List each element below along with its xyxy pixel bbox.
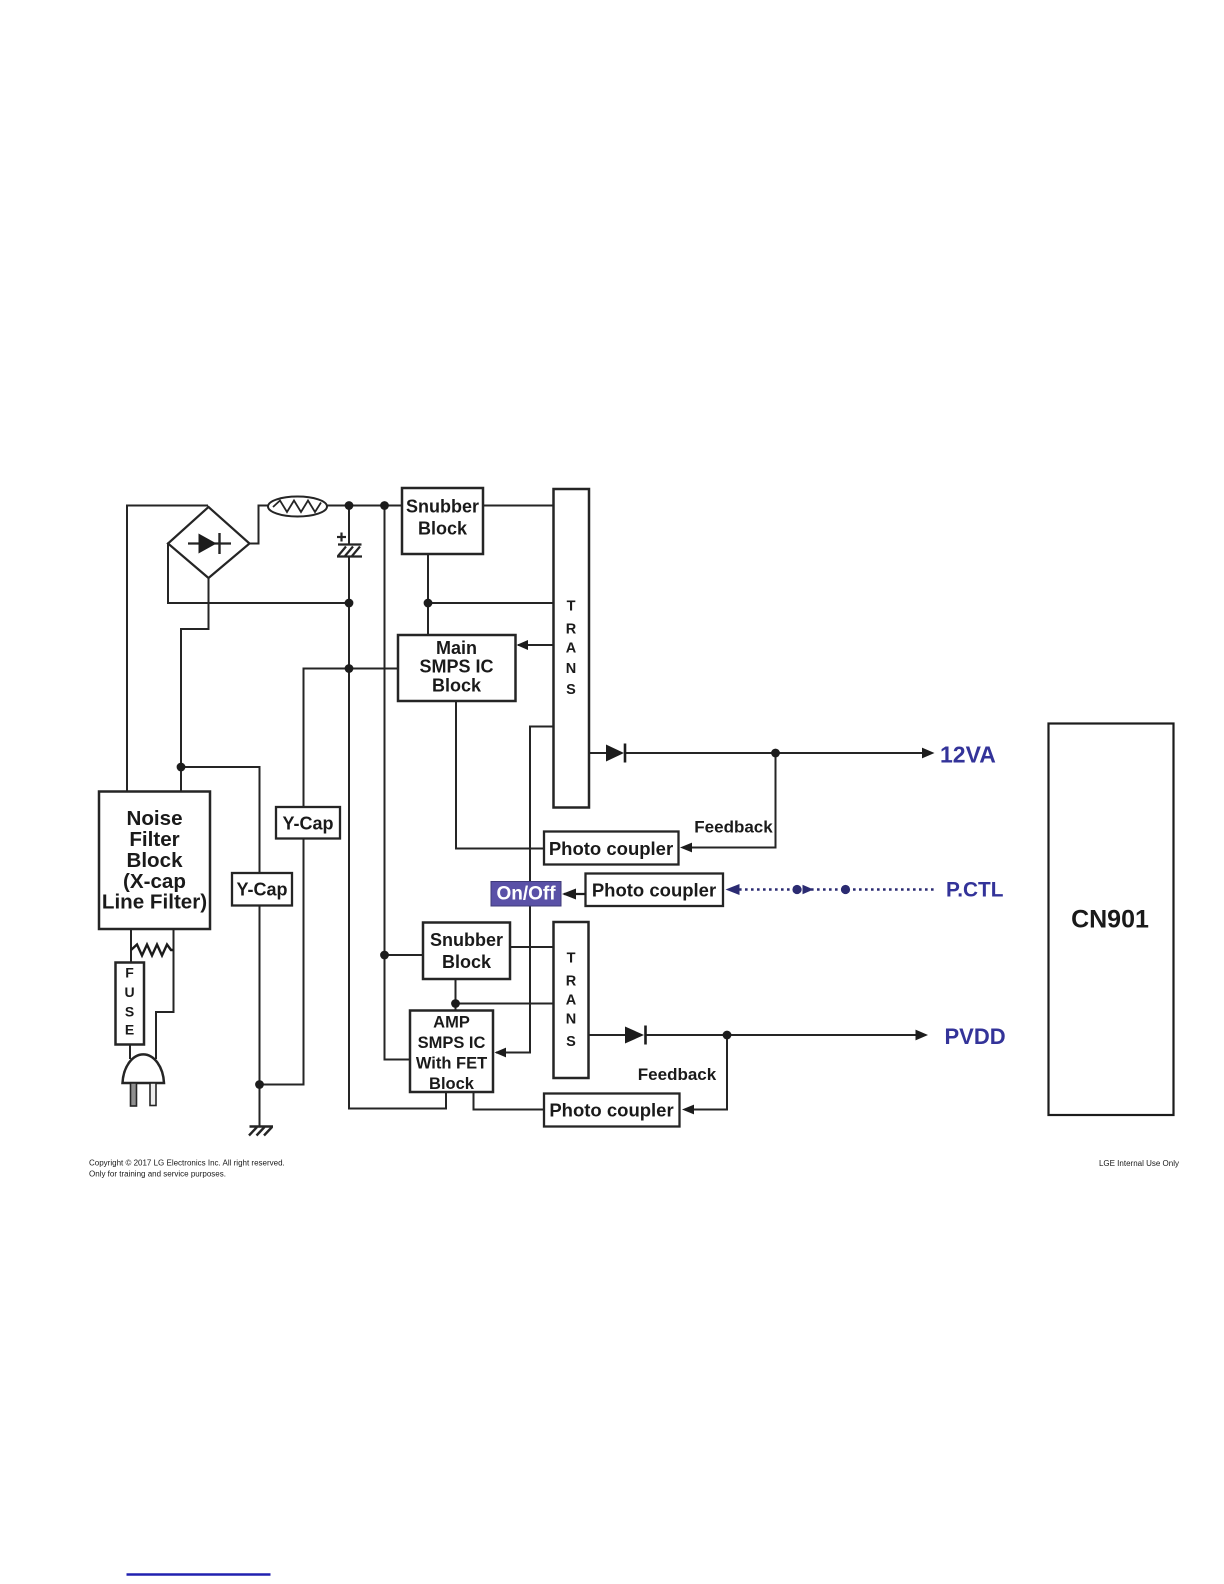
- wire top horizontal from left loop to bridge top: [127, 505, 207, 507]
- ground (chassis): [249, 1127, 273, 1136]
- node snubber2 bottom: [451, 999, 460, 1008]
- arrowhead 12VA: [922, 748, 935, 759]
- wire Snubber2 bottom to AMP top with node to TRANS2: [455, 979, 457, 1011]
- svg-text:U: U: [124, 984, 134, 1000]
- svg-text:A: A: [566, 992, 577, 1008]
- wire bridge right vertex to inductor: [250, 506, 269, 544]
- svg-text:Block: Block: [442, 952, 492, 972]
- arrowhead into Photo coupler 1: [680, 843, 692, 853]
- Noise Filter Block: [99, 792, 210, 930]
- svg-text:Snubber: Snubber: [430, 930, 503, 950]
- wire Noise Filter right leg down jog to plug: [156, 929, 174, 1058]
- wire long vertical to AMP left: [385, 506, 411, 1060]
- plug: [123, 1054, 165, 1106]
- Photo coupler 1: [544, 832, 679, 865]
- node 12VA feedback: [771, 749, 780, 758]
- wire TRANS1 to Main SMPS arrow: [519, 644, 554, 646]
- wire AMP bottom right leg to Photo coupler 3: [474, 1092, 545, 1110]
- svg-text:R: R: [566, 621, 577, 637]
- svg-text:Noise: Noise: [126, 807, 182, 830]
- svg-text:Block: Block: [418, 519, 468, 539]
- On/Off label: [491, 882, 561, 907]
- svg-text:12VA: 12VA: [940, 742, 996, 768]
- svg-text:Block: Block: [126, 849, 183, 872]
- svg-text:SMPS IC: SMPS IC: [419, 657, 493, 677]
- FUSE: [116, 963, 145, 1045]
- Y-Cap upper: [276, 807, 340, 839]
- wire bridge bottom vertex down, jog left, to Noise Filter top: [181, 578, 209, 792]
- diode D2 (PVDD): [606, 1026, 646, 1045]
- svg-text:Line Filter): Line Filter): [102, 891, 207, 914]
- svg-text:With FET: With FET: [416, 1055, 487, 1073]
- Photo coupler 3: [544, 1094, 680, 1127]
- AMP SMPS IC With FET Block: [410, 1011, 493, 1094]
- wire feedback 1 from 12VA node down to Photo coupler 1: [692, 753, 776, 848]
- diode D1 (12VA): [606, 744, 625, 763]
- Y-Cap lower: [232, 873, 292, 906]
- node noise filter top: [177, 763, 186, 772]
- svg-text:Photo coupler: Photo coupler: [549, 838, 673, 859]
- transformer TRANS1: [554, 489, 590, 808]
- node snubber2 left: [380, 951, 389, 960]
- resistor (zigzag between noise filter legs): [131, 945, 174, 956]
- svg-text:Photo coupler: Photo coupler: [549, 1100, 673, 1121]
- node main left wire: [345, 664, 354, 673]
- svg-text:Only for training and service: Only for training and service purposes.: [89, 1170, 226, 1179]
- svg-text:Photo coupler: Photo coupler: [592, 880, 716, 901]
- svg-text:S: S: [566, 1034, 576, 1050]
- node cap bottom: [345, 599, 354, 608]
- svg-text:AMP: AMP: [433, 1014, 470, 1032]
- svg-text:E: E: [125, 1022, 134, 1038]
- svg-text:Feedback: Feedback: [694, 818, 773, 837]
- Snubber Block 2: [423, 923, 510, 980]
- svg-text:P.CTL: P.CTL: [946, 879, 1004, 902]
- transformer TRANS2: [554, 922, 589, 1078]
- wire node to Y-Cap lower: [181, 767, 260, 873]
- arrowhead into Photo coupler 3: [682, 1105, 694, 1115]
- node at snubber input: [380, 501, 389, 510]
- svg-text:A: A: [566, 641, 577, 657]
- P.CTL dotted control line: [726, 884, 938, 895]
- arrowhead into Main SMPS: [517, 640, 529, 650]
- Photo coupler 2: [586, 874, 724, 907]
- wire Snubber1 bottom to Main top with node to TRANS: [427, 554, 429, 635]
- svg-text:N: N: [566, 1012, 576, 1028]
- node snubber1 bottom / trans wire: [424, 599, 433, 608]
- wire PVDD output line: [589, 1034, 607, 1036]
- svg-text:LGE Internal Use Only: LGE Internal Use Only: [1099, 1159, 1179, 1168]
- svg-text:Main: Main: [436, 638, 477, 658]
- wire inductor to Snubber Block 1: [327, 505, 402, 507]
- svg-text:CN901: CN901: [1071, 906, 1149, 934]
- svg-text:T: T: [567, 599, 576, 615]
- wire left vertical down to Noise Filter: [126, 506, 128, 792]
- wire bridge left vertex down and across to cap bottom node: [168, 544, 349, 604]
- svg-text:Y-Cap: Y-Cap: [236, 880, 287, 900]
- wire cap branch vertical: [348, 506, 350, 544]
- node ground wire: [255, 1080, 264, 1089]
- svg-text:Y-Cap: Y-Cap: [282, 814, 333, 834]
- connector CN901: [1049, 724, 1174, 1116]
- footer blue line: [127, 1573, 271, 1576]
- svg-text:On/Off: On/Off: [496, 884, 556, 905]
- wire Y-Cap lower to ground: [259, 906, 261, 1127]
- node at inductor/cap: [345, 501, 354, 510]
- arrowhead Photo coupler 2 to On/Off: [562, 889, 586, 900]
- wire long vertical primary return: [349, 603, 446, 1109]
- inductor L (ellipse with zigzag): [268, 497, 327, 517]
- svg-text:S: S: [125, 1004, 134, 1020]
- junction dots: [177, 501, 780, 1089]
- wire feedback 2 from PVDD node down to Photo coupler 3: [694, 1035, 727, 1110]
- bridge rectifier: [168, 507, 250, 578]
- wire Snubber2 left node: [385, 954, 424, 956]
- Main SMPS IC Block: [398, 635, 516, 701]
- svg-text:R: R: [566, 973, 577, 989]
- svg-text:S: S: [566, 682, 576, 698]
- svg-text:F: F: [125, 965, 134, 981]
- Snubber Block 1: [402, 488, 483, 554]
- svg-text:Copyright © 2017 LG Electronic: Copyright © 2017 LG Electronics Inc. All…: [89, 1159, 285, 1168]
- wire ground node across to Y-Cap upper bottom: [260, 839, 304, 1085]
- svg-text:Snubber: Snubber: [406, 497, 479, 517]
- svg-text:N: N: [566, 661, 576, 677]
- svg-text:Feedback: Feedback: [638, 1065, 717, 1084]
- node PVDD feedback: [723, 1031, 732, 1040]
- capacitor C (polarized, hatched plate): [337, 533, 362, 557]
- svg-text:Filter: Filter: [129, 828, 179, 851]
- wire Snubber2 right to TRANS2: [510, 946, 554, 948]
- wire Y-Cap upper top to Main SMPS left node: [304, 669, 399, 808]
- svg-text:PVDD: PVDD: [945, 1024, 1006, 1049]
- wire Snubber1 right to TRANS1: [483, 505, 554, 507]
- wire 12VA output line: [589, 752, 606, 754]
- wire TRANS1 left to On/Off vertical down to AMP arrow: [497, 727, 554, 1053]
- svg-text:Block: Block: [429, 1075, 475, 1093]
- svg-text:Block: Block: [432, 676, 482, 696]
- svg-text:T: T: [567, 951, 576, 967]
- arrowhead PVDD: [916, 1030, 929, 1041]
- wire FUSE bottom to plug: [129, 1045, 131, 1059]
- arrowhead into AMP block: [495, 1048, 507, 1058]
- wire Main SMPS bottom to Photo coupler 1: [456, 701, 544, 849]
- svg-text:SMPS IC: SMPS IC: [418, 1034, 486, 1052]
- wire Noise Filter left leg to FUSE: [130, 929, 132, 963]
